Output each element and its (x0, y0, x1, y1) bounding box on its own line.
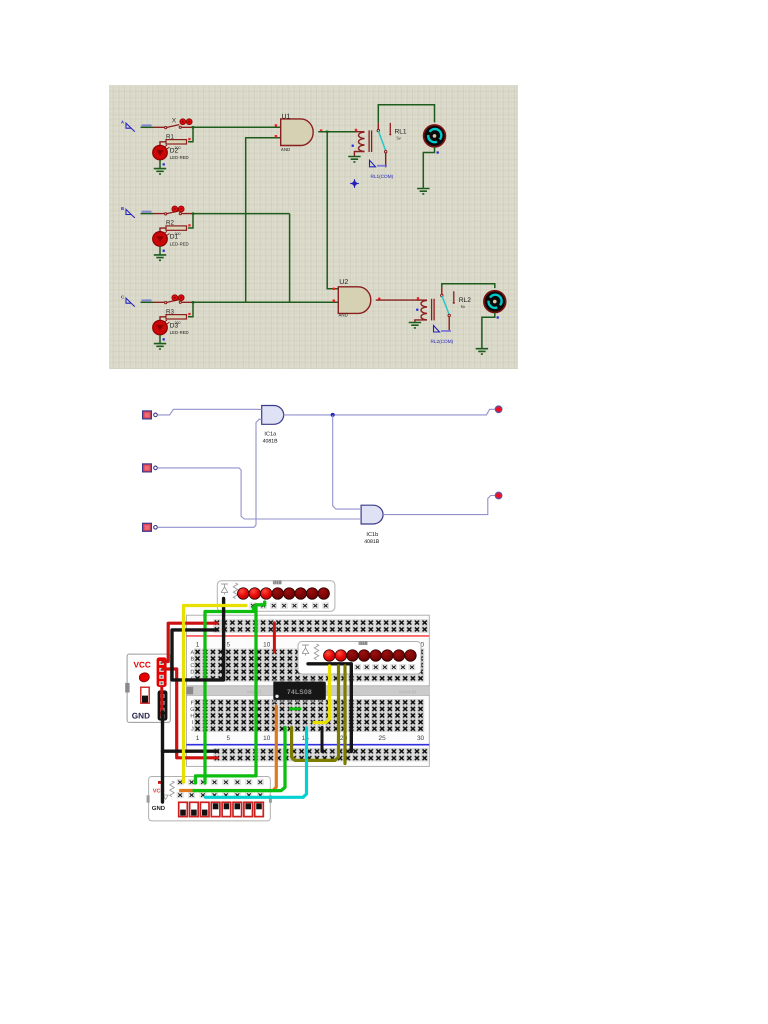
svg-text:GND: GND (152, 805, 166, 812)
top rail red line (186, 635, 429, 637)
node B junction (192, 212, 194, 214)
node A junction (192, 126, 194, 128)
led D1 LED-RED (153, 232, 168, 247)
op-amp IC1b AND gate 4081B (358, 505, 389, 524)
wire led to ground (159, 246, 161, 255)
wire U1 output down to U2 input 1 (327, 132, 338, 289)
svg-text:30: 30 (417, 735, 425, 742)
wire IC1b output to output pin 2 (389, 496, 495, 515)
wire black GND to bottom rail (163, 750, 218, 753)
dip module diode symbol (163, 795, 168, 799)
led module1 #3 (260, 588, 272, 600)
svg-text:X: X (172, 118, 177, 125)
svg-text:1: 1 (196, 641, 200, 648)
relay RL2 (417, 297, 419, 299)
wire input1 to IC1a in1 (157, 409, 258, 415)
svg-text:LED-RED: LED-RED (170, 155, 189, 160)
dip module pin holes row2 (177, 792, 263, 798)
bottom rail blue line (186, 744, 429, 746)
svg-text:10: 10 (263, 735, 271, 742)
module2 diode symbol (302, 645, 309, 656)
wire green jumper G13-G14 (291, 707, 301, 710)
wire node down to resistor (188, 214, 193, 228)
led D2 LED-RED (153, 145, 168, 160)
wire led to ground (159, 160, 161, 169)
svg-text:U2: U2 (339, 279, 348, 286)
led module1 #7 (306, 588, 318, 600)
svg-text:www.t: www.t (246, 689, 262, 695)
bottom power rail holes (213, 748, 428, 762)
led module1 #8 (318, 588, 330, 600)
led module2 #6 (382, 650, 394, 662)
ground (154, 344, 166, 349)
svg-text:VCC: VCC (134, 660, 151, 669)
module1 diode symbol (221, 584, 228, 595)
module1 resistor symbol (233, 583, 237, 599)
wire node down to resistor (188, 127, 193, 141)
switch SW-A (154, 126, 194, 128)
wire black GND to dip module (161, 712, 164, 802)
column numbers top (196, 641, 425, 648)
svg-text:D1: D1 (170, 234, 179, 241)
wire red short VCC to dip module (160, 687, 163, 717)
svg-text:www.to: www.to (398, 689, 416, 695)
svg-text:1: 1 (196, 735, 200, 742)
svg-text:4081B: 4081B (364, 539, 380, 545)
led module2 #8 (405, 650, 417, 662)
svg-text:AND: AND (281, 147, 290, 152)
wire C to U1 input 2 (193, 138, 281, 302)
svg-text:J: J (191, 727, 194, 733)
svg-text:RL1: RL1 (395, 129, 407, 136)
rows A-E holes (194, 649, 425, 682)
wire orange G11 to dip module (181, 707, 277, 791)
motor M1 (424, 125, 446, 147)
svg-text:10: 10 (263, 641, 271, 648)
svg-text:U1: U1 (282, 114, 291, 121)
ground motor M2 (476, 349, 488, 354)
led module2 #1 (324, 650, 336, 662)
wire black module1 to rail and E1 (172, 599, 224, 680)
wire red VCC to bottom rail (163, 669, 217, 758)
svg-text:IC1a: IC1a (264, 432, 277, 438)
svg-text:RL2: RL2 (459, 297, 471, 304)
op-amp IC1a AND gate 4081B (259, 406, 290, 425)
row letters A-E (190, 650, 194, 682)
svg-text:I: I (192, 720, 194, 726)
row letters F-J (190, 700, 194, 732)
LED bar module 2 (298, 642, 421, 675)
svg-text:RL1(COM): RL1(COM) (371, 174, 394, 179)
column numbers bottom (196, 735, 425, 742)
wire green module1 to dip module hole2 (196, 602, 265, 783)
wire node down to resistor (188, 302, 193, 316)
wire U1 output to relay RL1 (318, 131, 356, 133)
relay RL1 (355, 129, 357, 131)
svg-text:4081B: 4081B (263, 438, 279, 444)
led module2 #7 (393, 650, 405, 662)
wire B to U2 input 2 (193, 214, 338, 303)
svg-text:25: 25 (379, 735, 387, 742)
wire black module2 to bottom rail (308, 664, 351, 752)
svg-text:D2: D2 (170, 147, 179, 154)
power led (138, 672, 150, 683)
groove watermark (246, 689, 416, 695)
red pin mark dip module (158, 781, 163, 784)
svg-text:AND: AND (339, 312, 348, 317)
rows F-J holes (194, 699, 425, 732)
LED bar module 1 (217, 581, 335, 611)
wire olive module2 to J13 (292, 666, 339, 760)
wire relay common to motor RL2 (442, 284, 495, 288)
wire green module1 to dip module hole3 (205, 607, 254, 783)
dip module pin holes row1 (177, 779, 263, 785)
led module1 #4 (272, 588, 284, 600)
wire IC1a output to output pin 1 (289, 409, 495, 415)
svg-text:5v: 5v (461, 304, 465, 309)
power switch (141, 687, 149, 703)
led module2 #2 (335, 650, 347, 662)
wire input A to switch (141, 126, 154, 128)
output pin 1 (495, 406, 502, 413)
svg-text:74LS08: 74LS08 (287, 689, 312, 696)
op U1 AND gate (281, 119, 313, 146)
center groove (186, 686, 429, 696)
relay lever RL1 (379, 131, 386, 150)
wire A to U1 input 1 (193, 126, 281, 128)
ground under coil RL2 (409, 323, 421, 328)
power module panel (127, 654, 170, 722)
wire motor M2 to ground (482, 313, 495, 349)
blue compass marker (350, 179, 358, 187)
svg-text:5: 5 (227, 735, 231, 742)
svg-text:LED-RED: LED-RED (170, 241, 189, 246)
module2 pin holes (355, 664, 416, 670)
wire motor M1 to ground (423, 147, 434, 188)
svg-text:C: C (121, 295, 124, 300)
svg-text:RL2(COM): RL2(COM) (431, 339, 454, 344)
wire red VCC to top rail (163, 623, 217, 661)
vcc header block (157, 657, 167, 687)
led module1 #5 (283, 588, 295, 600)
relay NC contact RL1 (389, 123, 391, 133)
led module1 #1 (237, 588, 249, 600)
gnd header block (158, 690, 168, 720)
op U2 AND gate (338, 287, 370, 314)
dip switches (179, 802, 264, 816)
motor M2 (484, 291, 506, 313)
wire yellow module1 to dip module hole1 (184, 606, 247, 783)
svg-text:5v: 5v (397, 136, 401, 141)
top power rail holes (213, 619, 428, 633)
svg-text:LED-RED: LED-RED (170, 330, 189, 335)
breadboard body (186, 615, 429, 766)
schematic grid background (109, 85, 518, 369)
IC 74LS08 (273, 679, 322, 702)
wire junction down to IC1b in1 (333, 415, 358, 509)
svg-text:D3: D3 (170, 322, 179, 329)
wire relay common to motor RL1 (378, 105, 434, 123)
relay NC contact RL2 (453, 291, 455, 301)
input pin 1 (143, 411, 158, 419)
node junction dot (331, 413, 335, 417)
led D3 LED-RED (153, 320, 168, 335)
ground (154, 169, 166, 174)
module1 pin holes (250, 603, 329, 609)
wire resistor to led (160, 317, 166, 321)
wire input B to switch (141, 213, 154, 215)
led module1 #2 (249, 588, 261, 600)
switch state indicators (172, 206, 178, 212)
wire yellow module2 to I16 (314, 666, 330, 723)
ground motor M1 (417, 189, 429, 194)
relay lever RL2 (442, 296, 449, 314)
led module2 #3 (347, 650, 359, 662)
dip module resistor symbol (170, 781, 174, 797)
svg-text:A: A (121, 120, 124, 125)
wire resistor to led (160, 142, 166, 146)
output pin 2 (495, 492, 502, 499)
svg-text:IC1b: IC1b (366, 531, 378, 538)
ground (154, 255, 166, 260)
probe RL2(COM) (434, 326, 440, 333)
ground under coil RL1 (348, 157, 360, 162)
input pin 2 (143, 464, 158, 472)
module2 resistor symbol (314, 644, 318, 660)
wire input C to switch (141, 301, 154, 303)
probe RL1(COM) (370, 160, 376, 167)
wire cyan J15 to dip module (206, 728, 307, 797)
input pin 3 (143, 523, 158, 531)
wire input3 to IC1a in2 (157, 419, 259, 527)
switch SW-C (154, 301, 194, 303)
led module2 #4 (358, 650, 370, 662)
wire green J12 to dip module (194, 728, 285, 791)
wire red rail jumper col11 (273, 623, 276, 652)
switch SW-B (154, 213, 194, 215)
wire led to ground (159, 335, 161, 344)
led module1 #6 (295, 588, 307, 600)
node C junction (192, 301, 194, 303)
led module2 #5 (370, 650, 382, 662)
wire resistor to led (160, 228, 166, 232)
switch state indicators (180, 119, 186, 125)
switch state indicators (172, 295, 178, 301)
svg-text:5: 5 (227, 641, 231, 648)
wire input2 to IC1b in2 (157, 468, 358, 519)
wire U2 output to relay RL2 (376, 299, 418, 301)
svg-text:GND: GND (132, 711, 150, 720)
wire olive module2 to bottom rail (343, 666, 346, 764)
svg-text:B: B (121, 206, 124, 211)
wire black jumper J17 to bottom rail (321, 728, 324, 752)
dip switch module panel (149, 777, 271, 821)
